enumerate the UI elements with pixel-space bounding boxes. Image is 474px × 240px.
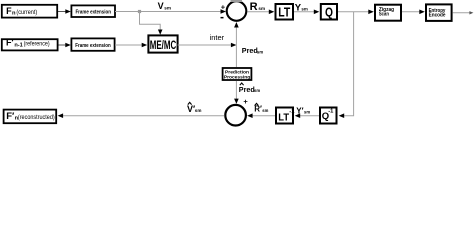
box LT-inverse — [276, 108, 293, 124]
svg-text:Pred: Pred — [239, 85, 255, 94]
svg-text:inter: inter — [210, 33, 225, 42]
wire Zigzag to Entropy — [402, 11, 421, 13]
svg-text:n: n — [12, 10, 16, 16]
svg-text:Scan: Scan — [379, 12, 389, 18]
wire Fn to Frame extension 1 — [58, 11, 67, 13]
svg-text:LT: LT — [278, 4, 290, 19]
svg-text:sm: sm — [304, 110, 310, 115]
wire subtractor to LT — [248, 11, 271, 13]
svg-text:(current): (current) — [16, 9, 37, 16]
box Prediction Processing — [223, 68, 252, 80]
wire adder to F'n reconstructed — [63, 115, 225, 117]
svg-text:+: + — [243, 97, 248, 106]
label V-hat-prime sm — [188, 102, 192, 104]
svg-text:sm: sm — [257, 50, 263, 55]
junction node — [138, 10, 141, 13]
svg-text:sm: sm — [254, 88, 260, 93]
output wire from Entropy Encode — [453, 12, 470, 14]
wire ME/MC to mid vertical (inter) — [178, 44, 232, 46]
svg-text:-1: -1 — [328, 109, 334, 115]
branch wire from junction to ME/MC — [140, 12, 161, 32]
wire Frame extension 2 to ME/MC — [115, 44, 143, 46]
box Frame extension (top) — [71, 5, 115, 17]
adder circle — [225, 105, 246, 126]
box Fn (current) — [2, 5, 57, 18]
box Frame extension (bottom) — [71, 38, 114, 50]
svg-text:sm: sm — [164, 5, 171, 10]
svg-text:Q: Q — [325, 4, 333, 19]
box Q-inverse — [320, 108, 337, 124]
subtractor circle — [227, 1, 247, 21]
svg-text:Pred: Pred — [242, 46, 258, 55]
wire LT-inverse to adder — [253, 115, 276, 117]
svg-text:sm: sm — [262, 108, 268, 113]
minus sign at subtractor — [221, 17, 224, 19]
svg-text:R′: R′ — [254, 105, 262, 114]
box Zigzag Scan — [375, 5, 401, 21]
svg-text:(reconstructed): (reconstructed) — [18, 114, 55, 121]
box ME/MC — [148, 35, 177, 52]
svg-text:Processing: Processing — [224, 75, 250, 81]
svg-text:-1: -1 — [289, 109, 295, 115]
box Entropy Encode — [426, 4, 452, 21]
wire Q to Zigzag Scan — [338, 11, 370, 13]
box F'n (reconstructed) — [4, 110, 57, 124]
mid vertical wire up to subtractor — [235, 27, 237, 46]
svg-text:Y′: Y′ — [296, 107, 303, 116]
gray band at top of circle — [231, 0, 243, 2]
svg-text:Frame extension: Frame extension — [75, 43, 111, 49]
wire LT to Q — [294, 11, 315, 13]
box LT — [276, 4, 294, 20]
svg-text:LT: LT — [278, 111, 289, 123]
svg-text:sm: sm — [195, 108, 202, 113]
box F'n-1 (reference) — [2, 39, 58, 50]
mid vertical wire down to Prediction Processing — [235, 45, 237, 67]
wire F'n-1 to Frame extension 2 — [59, 44, 67, 46]
label R-hat-prime sm — [255, 103, 259, 105]
svg-text:sm: sm — [258, 6, 265, 11]
label Pred-hat sm — [240, 83, 244, 85]
svg-text:Frame extension: Frame extension — [75, 9, 111, 15]
svg-text:R: R — [250, 1, 258, 13]
svg-text:Encode: Encode — [429, 12, 446, 18]
box Q — [321, 4, 337, 20]
svg-text:ME/MC: ME/MC — [150, 40, 177, 52]
svg-text:F′: F′ — [6, 38, 14, 48]
feedback wire from T junction down to Q-inverse — [344, 12, 354, 116]
svg-text:Prediction: Prediction — [225, 69, 249, 75]
svg-text:sm: sm — [301, 7, 307, 12]
wire Frame extension 1 to subtractor — [115, 11, 222, 13]
svg-text:n-1: n-1 — [14, 42, 22, 48]
svg-text:+: + — [221, 2, 226, 11]
wire Q-inverse to LT-inverse — [300, 115, 319, 117]
svg-text:V: V — [158, 1, 164, 11]
mid vertical wire down to adder — [235, 81, 237, 100]
svg-text:(reference): (reference) — [24, 41, 50, 48]
